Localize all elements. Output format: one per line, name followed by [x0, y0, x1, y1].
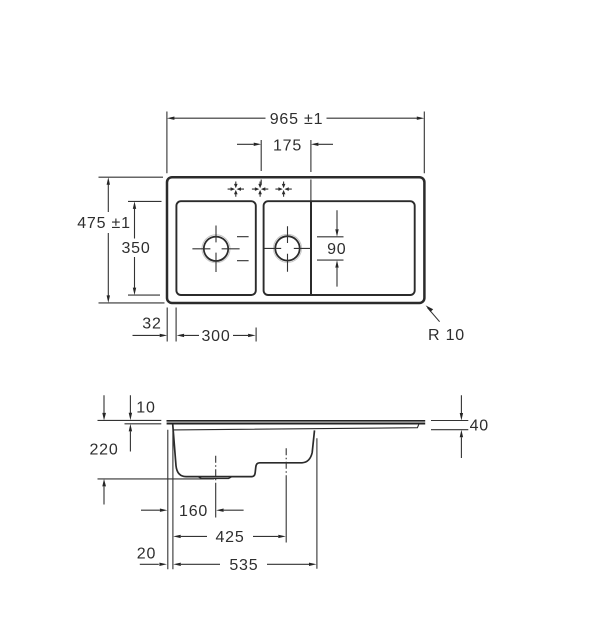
dimension 90 — [327, 210, 346, 286]
dimension 175 — [237, 137, 333, 154]
middle bowl and drainboard outline — [264, 201, 415, 295]
dimension 32 extension lines — [167, 308, 176, 342]
centerline middle drain (section) — [285, 448, 287, 542]
rim slab (thick top bar) — [167, 421, 426, 424]
dimension 40 extension lines — [431, 421, 468, 430]
svg-text:10: 10 — [136, 400, 155, 417]
svg-text:175: 175 — [273, 137, 302, 154]
tap hole cross 2 — [252, 182, 268, 197]
extension line rim left end — [167, 430, 169, 570]
svg-text:965 ±1: 965 ±1 — [270, 111, 324, 128]
dimension 20 — [137, 546, 167, 566]
svg-text:350: 350 — [121, 240, 150, 257]
extension line bowl left wall — [172, 431, 174, 570]
dimension 965 ±1 extension lines — [167, 112, 424, 174]
bowl section profile — [173, 424, 315, 477]
left drain circle — [204, 237, 228, 261]
left drain outer faint circle — [202, 235, 230, 263]
dimension 475 ±1 extension lines — [99, 177, 165, 303]
radius leader R 10 — [426, 305, 465, 344]
tap hole cross 1 — [228, 182, 244, 197]
dimension 32 — [133, 316, 168, 338]
middle drain outer faint circle — [274, 234, 302, 262]
middle drain circle — [275, 236, 299, 260]
dimension 40 — [460, 395, 489, 458]
svg-text:535: 535 — [229, 557, 258, 574]
dimension 350 — [121, 201, 150, 295]
centerline left drain (section) — [215, 456, 217, 518]
svg-text:20: 20 — [137, 546, 156, 563]
sink outer rim outline — [167, 177, 424, 303]
dimension 300 tick — [255, 328, 257, 342]
middle bowl right edge divider — [310, 202, 312, 295]
svg-text:90: 90 — [327, 241, 346, 258]
dimension 220 arrows — [89, 395, 118, 504]
dimension 300 — [177, 328, 256, 345]
svg-text:300: 300 — [201, 328, 230, 345]
svg-text:220: 220 — [89, 441, 118, 458]
extension line B (rim bottom level) — [125, 423, 162, 425]
left drain diameter ticks — [237, 237, 249, 261]
dimension 90 extension lines — [317, 237, 344, 260]
left bowl outline — [176, 201, 255, 295]
dimension 175 extension lines — [261, 140, 311, 201]
middle drain centerlines — [264, 226, 310, 271]
dimension 535 — [173, 557, 316, 574]
dimension 160 — [141, 503, 244, 520]
dimension 350 extension lines — [128, 201, 162, 295]
dimension 965 ±1 — [167, 111, 424, 128]
svg-text:475 ±1: 475 ±1 — [77, 215, 131, 232]
dimension 425 — [173, 529, 286, 546]
svg-text:160: 160 — [179, 503, 208, 520]
svg-text:425: 425 — [215, 529, 244, 546]
extension line C (bowl bottom level) — [98, 478, 215, 480]
tap hole cross 3 — [275, 182, 291, 197]
drain recess in bowl bottom — [198, 477, 231, 479]
dimension 475 ±1 — [77, 177, 131, 303]
left drain centerlines — [192, 226, 239, 273]
svg-text:40: 40 — [470, 417, 489, 434]
extension line A (rim top level) — [98, 419, 162, 421]
svg-text:32: 32 — [142, 316, 161, 333]
rim underside line — [173, 424, 419, 430]
dimension 10 arrows — [129, 395, 156, 451]
svg-text:R 10: R 10 — [428, 327, 465, 344]
extension line bowl right edge — [316, 438, 318, 569]
